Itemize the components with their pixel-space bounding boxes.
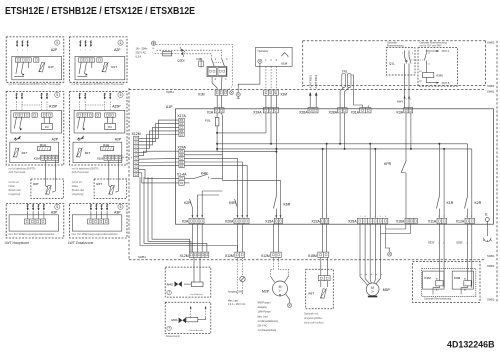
svg-text:X12A: X12A: [456, 220, 465, 224]
M2P earth screw: [286, 294, 290, 303]
svg-text:A2P/TRB02: A2P/TRB02: [314, 74, 318, 88]
R6T connector: [318, 276, 330, 281]
wire X19A pin1 down: [265, 113, 267, 133]
svg-text:nur für *3V* und *9W*: nur für *3V* und *9W*: [420, 45, 442, 48]
svg-text:Optionale Reserveheizung: Optionale Reserveheizung: [424, 298, 452, 301]
svg-text:AUS-Thermostat: AUS-Thermostat: [72, 171, 89, 174]
PE screw terminal: [236, 92, 240, 96]
svg-text:DC: DC: [108, 125, 112, 129]
svg-text:Ausgang: Ausgang: [258, 306, 268, 309]
svg-text:M4S: M4S: [171, 318, 177, 322]
breaker Q1L symbol: [404, 51, 406, 57]
svg-text:1: 1: [27, 50, 28, 52]
right outer dashed border: [496, 41, 498, 303]
svg-text:R1T: R1T: [111, 65, 117, 69]
svg-text:X20A: X20A: [225, 220, 234, 224]
svg-text:X33Y: X33Y: [456, 241, 463, 245]
thermistor R2T: [45, 185, 51, 195]
relay coil K3M: [423, 73, 434, 78]
svg-text:nur für Wärmepumpenkonvektor: nur für Wärmepumpenkonvektor: [9, 233, 55, 236]
hydrobox ground screw: [258, 59, 262, 63]
wire X19A pin2 down: [270, 113, 272, 144]
wire bus1 down to K1R X11A: [438, 144, 440, 196]
svg-text:R2T: R2T: [96, 182, 102, 186]
svg-text:1: 1: [22, 50, 23, 52]
wires X2A down to X12M field: [191, 224, 193, 253]
svg-text:K9R: K9R: [229, 201, 236, 205]
wires X20A down to X12M field 2: [236, 224, 238, 253]
wires Q1L down to K3A: [404, 75, 406, 108]
circled 7 valve: [167, 290, 171, 294]
wires to R2T: [45, 160, 47, 186]
SWB1 switch box left dashed border: [128, 88, 130, 260]
svg-text:Q2DI: Q2DI: [178, 59, 185, 63]
dashed wires WW output: [236, 257, 238, 294]
shutoff valve symbol: [179, 318, 183, 324]
arrow to X33Y B: [426, 82, 436, 84]
svg-text:SWB2: SWB2: [487, 264, 495, 268]
svg-text:K2M: K2M: [454, 276, 461, 280]
terminal X1M hydro: [264, 90, 279, 95]
wire fan X12M to A1P strips: [139, 120, 179, 138]
A2P inner box: [75, 57, 125, 80]
A3P inner box: [9, 215, 59, 231]
svg-text:X1M: X1M: [281, 61, 288, 65]
wire bus2 end down to X12A pin2: [471, 149, 473, 218]
A15P switch contacts: [78, 117, 80, 128]
svg-text:X1A: X1A: [207, 111, 214, 115]
A15P DC supply box: [42, 123, 53, 129]
svg-text:5: 5: [56, 41, 58, 45]
svg-text:SWB2: SWB2: [487, 40, 495, 44]
dashed box A3P (col 5): [6, 203, 64, 238]
dashed box R2T: [31, 179, 64, 199]
svg-text:K1R: K1R: [447, 201, 454, 205]
hydrobox dashed wires down: [265, 66, 267, 90]
svg-text:Q1L: Q1L: [389, 62, 395, 66]
cable arrows into A3P: [27, 204, 29, 209]
wire bus1 end down to K2R X12A: [467, 144, 469, 196]
wire bundle X12M down to field connectors: [140, 177, 238, 252]
A2P switch contacts: [79, 62, 81, 74]
thermistor R6T: [320, 281, 322, 287]
wires X16A joining M3P feed: [386, 224, 406, 229]
svg-text:X17A: X17A: [177, 114, 186, 118]
wire to Q2DI: [172, 53, 180, 55]
A2P switch contacts: [16, 62, 18, 74]
X24A stubs: [184, 150, 217, 152]
TR1 wire to X31A: [351, 75, 362, 108]
svg-text:6: 6: [120, 41, 122, 45]
wire X19A pin3 down through K6R to X15A: [275, 113, 277, 196]
svg-text:A2P: A2P: [114, 48, 121, 52]
bus wire y133: [217, 132, 266, 134]
wires X12M to X1-4A: [139, 169, 179, 178]
dashed box R6T sensor: [306, 269, 334, 309]
svg-text:Umgebungsfühler: Umgebungsfühler: [304, 317, 322, 320]
wires to R2T: [108, 160, 110, 186]
wires X28A down to buses: [339, 113, 341, 144]
dashed sub-box K3M: [418, 48, 458, 87]
A3P terminal strip: [24, 219, 45, 224]
svg-text:X12M: X12M: [132, 132, 141, 136]
svg-text:M4S: M4S: [167, 283, 173, 287]
X1M strip row2: [104, 155, 122, 160]
svg-text:Ventil-Antrieb: Ventil-Antrieb: [190, 293, 204, 296]
svg-text:A15P: A15P: [49, 105, 58, 109]
svg-text:7: 7: [168, 327, 170, 331]
strip X12M: [134, 136, 139, 177]
wires X22A up to buses: [322, 149, 324, 218]
svg-text:ETSH12E / ETSHB12E / ETSX12E /: ETSH12E / ETSHB12E / ETSX12E / ETSXB12E: [5, 6, 195, 17]
dashed link wires: [16, 102, 18, 111]
dashed box thermostat A2P (col 6): [69, 37, 127, 82]
svg-text:R1T: R1T: [85, 151, 91, 155]
dashed sub-box Q1L: [386, 48, 415, 75]
svg-text:X28A: X28A: [329, 111, 338, 115]
svg-text:A2P/TRB01: A2P/TRB01: [308, 74, 312, 88]
arrow to X33Y A: [426, 50, 436, 52]
svg-text:Optionale: Optionale: [387, 42, 398, 45]
svg-text:Reserveheizung: Reserveheizung: [387, 45, 404, 48]
dashed box thermostat A2P (col 5): [6, 37, 64, 82]
svg-text:Max. Last: Max. Last: [258, 315, 268, 318]
switch coupler dashed: [214, 62, 222, 64]
A2P terminal strip: [79, 58, 95, 62]
svg-text:230 V AC: 230 V AC: [136, 52, 147, 55]
wire K3A pin2 to bus: [410, 113, 412, 149]
svg-text:X16A: X16A: [396, 220, 405, 224]
svg-text:R2T: R2T: [33, 182, 39, 186]
wires cluster to X1M: [212, 77, 217, 90]
svg-text:Hydrobox: Hydrobox: [258, 50, 269, 53]
wires X15A to X12M no3: [273, 224, 275, 253]
svg-text:LWT Hauptzone: LWT Hauptzone: [5, 241, 30, 245]
K3M aux contact: [425, 50, 427, 54]
svg-text:X33Y: X33Y: [428, 241, 435, 245]
svg-text:X33Y A: X33Y A: [442, 50, 450, 53]
cable arrows into shutoff valve: [190, 308, 192, 317]
wire Q2DI to contact 1: [184, 54, 212, 59]
contactor K1M box: [423, 271, 444, 289]
vertical wire from FU1: [216, 126, 218, 152]
cable arrows into A2P: [79, 40, 81, 45]
SWB1 bottom dashed border: [129, 259, 486, 261]
cable arrows into A2P: [16, 40, 18, 45]
svg-text:„WW-Pumpe“: „WW-Pumpe“: [258, 312, 272, 314]
wire bus2 down to X11A pin2: [443, 149, 445, 218]
svg-text:X24A: X24A: [177, 146, 186, 150]
svg-text:nur für verkabelten EKRTW- AUS: nur für verkabelten EKRTW- AUS- Thermost…: [72, 83, 124, 86]
wires X12M to X24A: [139, 151, 179, 155]
A15P switch contacts: [14, 117, 16, 128]
bus wire y148.9: [217, 148, 472, 150]
svg-text:SWB1: SWB1: [166, 90, 174, 94]
hydrobox L-wire to PE screw: [238, 64, 260, 93]
A2P receiver inner box: [73, 142, 122, 163]
A15P DC supply box: [105, 123, 116, 129]
A2P terminal strip: [15, 58, 31, 62]
svg-text:KHY: KHY: [397, 100, 403, 104]
dashed box valve actuator: [165, 267, 211, 297]
circled number 6 row2: [118, 92, 123, 97]
svg-text:SWB1: SWB1: [487, 254, 495, 258]
svg-text:Optionaler ext.: Optionaler ext.: [304, 313, 319, 316]
svg-text:FU1: FU1: [205, 118, 211, 122]
svg-text:R1T: R1T: [22, 151, 28, 155]
svg-text:K6R: K6R: [284, 203, 291, 207]
line fuse: [163, 52, 172, 56]
svg-text:X22A: X22A: [311, 220, 320, 224]
wires X12A to K2M: [467, 224, 469, 281]
dashed box optional heater bottom outer: [413, 262, 481, 303]
svg-text:A1P: A1P: [166, 105, 173, 109]
svg-text:X11A: X11A: [428, 220, 437, 224]
A3P terminal strip: [88, 219, 109, 224]
heater R1H hatched box: [38, 146, 51, 150]
A3P inner box: [72, 215, 122, 231]
svg-text:DC: DC: [45, 125, 49, 129]
bus wire y151.6: [217, 151, 276, 153]
svg-text:3~: 3~: [371, 289, 375, 293]
svg-text:X12M: X12M: [225, 254, 234, 258]
WW output indicator circle: [240, 276, 245, 281]
svg-text:SWB1: SWB1: [138, 255, 146, 259]
dashed box wireless thermostat A15P (col 5): [6, 92, 64, 165]
svg-text:Öffnen-Antrieb: Öffnen-Antrieb: [189, 329, 204, 332]
bus wire y143.8: [217, 143, 467, 145]
svg-text:6: 6: [120, 205, 122, 209]
circled 7 shutoff: [167, 326, 171, 330]
svg-text:X12M: X12M: [261, 254, 270, 258]
svg-text:K2R: K2R: [184, 201, 191, 205]
svg-text:LWT Zusatzzone: LWT Zusatzzone: [68, 241, 94, 245]
svg-text:X26A: X26A: [299, 111, 308, 115]
dashed wires to pump M2P: [270, 257, 273, 276]
svg-text:K3A: K3A: [397, 111, 404, 115]
horizontal wire y180.4: [222, 179, 280, 181]
svg-text:Fühler: Fühler: [72, 185, 79, 188]
A2P inner box: [12, 57, 62, 80]
circled number 5: [55, 40, 60, 45]
terminal cluster sub-box right: [218, 68, 226, 76]
svg-text:M2P: M2P: [262, 290, 270, 294]
wires X25A to pump M3P: [360, 224, 368, 286]
X1M strip row2: [41, 155, 59, 160]
wires X1M to X1A: [216, 95, 218, 107]
pump M2P: [273, 281, 288, 296]
svg-text:SWB2: SWB2: [487, 298, 495, 302]
svg-text:X12M: X12M: [180, 254, 189, 258]
svg-text:A3P: A3P: [51, 210, 58, 214]
screw terminals beside X1M: [230, 91, 234, 95]
wires X12M to valve motor: [193, 257, 195, 282]
wires X24A to X20A: [184, 158, 237, 207]
svg-text:A2P: A2P: [51, 48, 58, 52]
pump M3P: [366, 283, 379, 296]
arrows up from X26A: [309, 95, 311, 108]
main PCB A1P box: [176, 109, 494, 224]
shutoff motor body: [186, 317, 198, 321]
house icon: [282, 53, 289, 58]
svg-text:X19A: X19A: [253, 111, 262, 115]
svg-text:KPR: KPR: [384, 162, 392, 166]
dashed box wireless thermostat A15P (col 6): [69, 92, 127, 165]
svg-text:K2R: K2R: [475, 201, 482, 205]
svg-text:nur für kabellosen EKRTR /: nur für kabellosen EKRTR /: [9, 167, 37, 170]
svg-text:X25A: X25A: [348, 220, 357, 224]
svg-text:(Boden oder: (Boden oder: [72, 189, 85, 192]
svg-text:A15P: A15P: [112, 105, 121, 109]
svg-text:A2P: A2P: [52, 137, 59, 141]
dashed box R2T: [94, 179, 127, 199]
svg-text:Fühler: Fühler: [9, 185, 16, 188]
svg-text:1: 1: [90, 50, 91, 52]
svg-text:1: 1: [80, 50, 81, 52]
svg-text:5: 5: [56, 93, 58, 97]
svg-text:X1M: X1M: [198, 92, 205, 96]
svg-text:5: 5: [56, 205, 58, 209]
svg-text:nur für kabellosen EKRTR /: nur für kabellosen EKRTR /: [72, 167, 100, 170]
svg-text:WW-Pumpe /: WW-Pumpe /: [258, 303, 272, 305]
svg-text:A2P: A2P: [115, 137, 122, 141]
svg-text:X15A: X15A: [265, 220, 274, 224]
terminal cluster sub-box left: [208, 68, 216, 76]
svg-text:230 V AC: 230 V AC: [258, 325, 268, 328]
vertical wire X1A pin2: [221, 113, 222, 180]
thermistor R1T row2: [76, 148, 82, 158]
circled number 6 row4: [118, 204, 123, 209]
svg-text:1: 1: [17, 50, 18, 52]
wire X15A pin2: [280, 180, 282, 214]
svg-text:1 A (Einschaltstrom),: 1 A (Einschaltstrom),: [258, 320, 279, 323]
wires X15M to R6T connector: [320, 257, 322, 275]
thermistor R1T: [102, 62, 109, 72]
svg-text:R6T: R6T: [309, 292, 315, 296]
svg-text:X31A: X31A: [351, 111, 360, 115]
svg-text:X1M: X1M: [34, 156, 41, 160]
svg-text:1N~, 50Hz: 1N~, 50Hz: [136, 48, 149, 51]
circled number 5 row4: [55, 204, 60, 209]
wires X22A to X15M: [322, 224, 324, 253]
svg-text:SWB2: SWB2: [487, 84, 495, 88]
circled number 5 row2: [55, 92, 60, 97]
dashed box A3P (col 6): [69, 203, 127, 238]
dashed link Q1L to K3M: [411, 59, 424, 61]
N dashed wire with fuse: [155, 53, 163, 55]
cable arrows into A3P: [90, 204, 92, 209]
wireless signal symbol: [14, 137, 17, 140]
svg-text:A3P: A3P: [114, 210, 121, 214]
svg-text:7: 7: [168, 291, 170, 295]
thermistor R2T: [108, 185, 114, 195]
svg-text:(innen oder außen): (innen oder außen): [304, 322, 324, 325]
PE dashed wire: [156, 45, 233, 92]
svg-text:K1M: K1M: [425, 276, 432, 280]
breaker Q2DI two-pole: [181, 49, 183, 51]
contactor K2M box: [452, 271, 473, 289]
ground screw near M3P: [386, 224, 390, 252]
thermistor R1T row2: [13, 148, 19, 158]
supply ground screw: [151, 41, 155, 45]
svg-text:Umgebung): Umgebung): [72, 194, 84, 196]
valve motor body: [191, 282, 203, 287]
svg-text:X1M: X1M: [97, 156, 104, 160]
valve symbol: [175, 281, 179, 287]
heater R1H hatched box: [101, 146, 114, 150]
wires X1M hydro to X19A: [265, 95, 267, 107]
svg-text:1~: 1~: [278, 289, 282, 293]
wires X11A to K1M: [438, 224, 440, 281]
svg-text:6,3 A: 6,3 A: [136, 56, 142, 59]
KHY arrows: [404, 96, 406, 99]
svg-text:X1M: X1M: [280, 92, 287, 96]
svg-text:X2A: X2A: [182, 220, 189, 224]
hydrobox unit box: [256, 47, 293, 66]
svg-text:K3M: K3M: [436, 74, 443, 78]
dashed box shutoff valve: [165, 302, 211, 333]
svg-text:Ausgang „WW“: Ausgang „WW“: [228, 290, 244, 293]
wires buses down to X25A: [369, 144, 371, 219]
svg-text:nur für Wärmepumpenkonvektor: nur für Wärmepumpenkonvektor: [72, 233, 118, 236]
svg-text:TR1: TR1: [342, 69, 348, 73]
A15P terminal strips: [14, 113, 30, 117]
A15P inner box: [11, 110, 62, 133]
svg-text:X1-4A: X1-4A: [177, 172, 187, 176]
svg-text:Optionale Reserveheizung: Optionale Reserveheizung: [420, 42, 448, 45]
svg-text:nur für verkabelten EKRTW- AUS: nur für verkabelten EKRTW- AUS- Thermost…: [9, 83, 61, 86]
svg-text:X33Y B: X33Y B: [442, 83, 450, 85]
wireless signal symbol: [77, 137, 80, 140]
X1-4A pin2 wire: [184, 182, 189, 184]
svg-text:4D132246B: 4D132246B: [447, 339, 495, 350]
svg-text:1 A (Dauerbetrieb): 1 A (Dauerbetrieb): [258, 329, 277, 332]
TR1 wires to X28A: [340, 88, 344, 108]
cable arrows into A15P: [16, 93, 18, 98]
dashed link wires: [79, 102, 81, 111]
dashed box optional heater bottom inner: [422, 269, 476, 297]
terminal cluster outer box: [207, 66, 227, 76]
svg-text:Max. Last: Max. Last: [228, 300, 238, 303]
svg-text:6: 6: [120, 93, 122, 97]
wire K3A pin1 through KPR to X16A: [405, 113, 407, 161]
svg-text:0,3 A ~ 230 V AC: 0,3 A ~ 230 V AC: [228, 303, 246, 306]
svg-text:SWB1: SWB1: [487, 90, 495, 94]
SWB2 dashed region top: [303, 40, 486, 42]
svg-text:Absperrventil: Absperrventil: [166, 335, 180, 338]
svg-text:nur für ext.: nur für ext.: [9, 181, 20, 184]
L dashed wire: [157, 50, 222, 58]
svg-text:nur für ext.: nur für ext.: [72, 181, 83, 184]
cable arrows into A15P: [79, 93, 81, 98]
A2P receiver inner box: [10, 142, 59, 163]
svg-text:X15M: X15M: [308, 254, 317, 258]
dashed wires from wireless boxes to X12M: [123, 157, 134, 159]
A15P terminal strips: [77, 113, 93, 117]
A15P inner box: [74, 110, 125, 133]
svg-text:Umgebung): Umgebung): [9, 194, 21, 196]
svg-text:R1T: R1T: [48, 65, 54, 69]
svg-text:(Boden oder: (Boden oder: [9, 189, 22, 192]
svg-text:1: 1: [85, 50, 86, 52]
svg-text:AUS-Thermostat: AUS-Thermostat: [9, 171, 26, 174]
SWB1 top dashed border: [129, 89, 486, 91]
circled number 6: [118, 40, 123, 45]
svg-text:M3P: M3P: [383, 288, 391, 292]
thermistor R1T: [39, 62, 46, 72]
